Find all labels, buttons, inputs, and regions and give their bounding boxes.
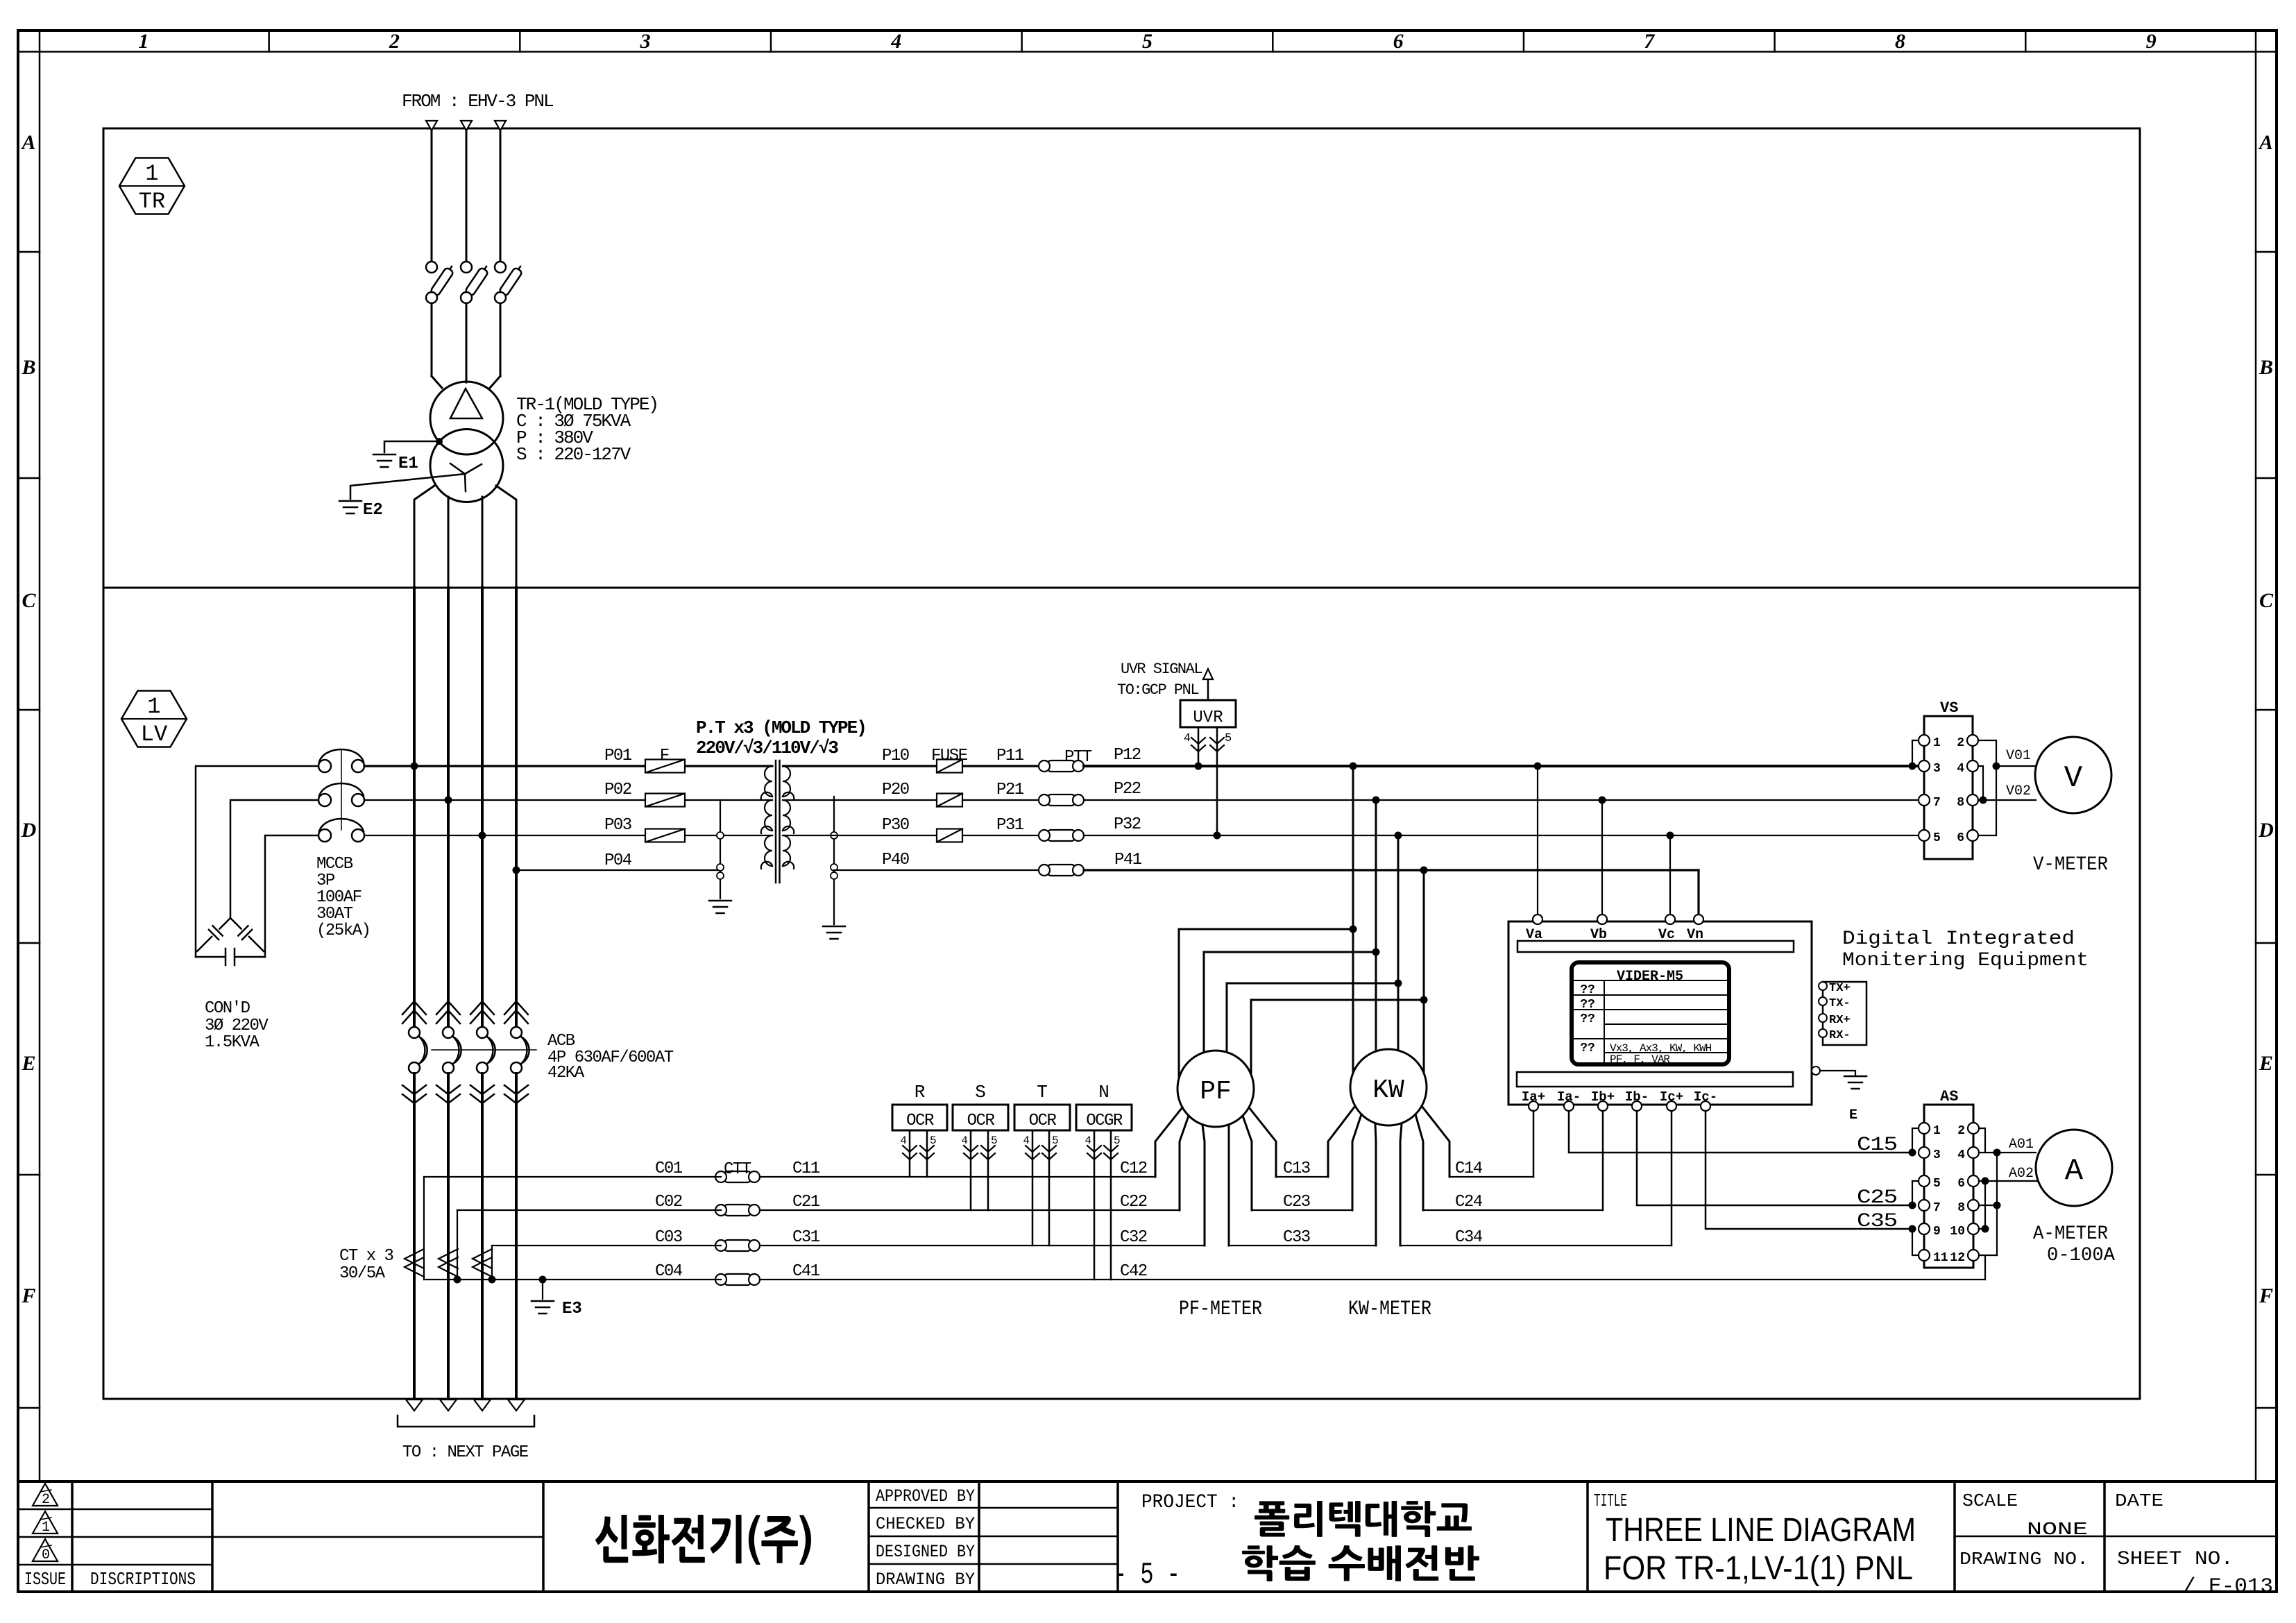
svg-text:P.T x3 (MOLD TYPE): P.T x3 (MOLD TYPE) bbox=[696, 717, 866, 738]
svg-text:Ic+: Ic+ bbox=[1660, 1089, 1683, 1105]
svg-text:B: B bbox=[21, 356, 35, 379]
svg-text:7: 7 bbox=[1644, 30, 1655, 53]
svg-text:P04: P04 bbox=[604, 851, 632, 870]
svg-text:F: F bbox=[21, 1284, 35, 1307]
svg-text:C21: C21 bbox=[792, 1193, 820, 1212]
svg-text:C12: C12 bbox=[1120, 1159, 1147, 1178]
svg-text:8: 8 bbox=[1957, 1201, 1965, 1215]
svg-text:3: 3 bbox=[1933, 762, 1941, 776]
svg-text:3: 3 bbox=[1933, 1148, 1941, 1162]
svg-text:A: A bbox=[2065, 1154, 2084, 1189]
svg-text:1.5KVA: 1.5KVA bbox=[205, 1033, 260, 1052]
svg-text:C31: C31 bbox=[792, 1228, 820, 1247]
svg-text:30/5A: 30/5A bbox=[339, 1264, 386, 1283]
svg-text:C02: C02 bbox=[655, 1193, 682, 1212]
svg-text:E2: E2 bbox=[363, 501, 383, 520]
svg-text:V-METER: V-METER bbox=[2033, 854, 2108, 876]
svg-text:DISCRIPTIONS: DISCRIPTIONS bbox=[90, 1569, 196, 1590]
svg-text:P31: P31 bbox=[996, 816, 1024, 835]
svg-text:Digital Integrated: Digital Integrated bbox=[1842, 928, 2075, 950]
svg-text:TX-: TX- bbox=[1829, 997, 1851, 1010]
svg-text:3: 3 bbox=[640, 30, 651, 53]
svg-text:P12: P12 bbox=[1114, 746, 1141, 765]
svg-text:TITLE: TITLE bbox=[1594, 1490, 1627, 1511]
svg-text:E: E bbox=[21, 1052, 35, 1075]
svg-text:PF: PF bbox=[1200, 1077, 1232, 1107]
svg-text:4: 4 bbox=[1085, 1135, 1091, 1147]
svg-text:PF, F, VAR: PF, F, VAR bbox=[1610, 1053, 1670, 1066]
svg-text:9: 9 bbox=[2146, 30, 2157, 53]
svg-text:D: D bbox=[2258, 819, 2274, 842]
svg-text:C15: C15 bbox=[1857, 1135, 1897, 1156]
svg-text:UVR SIGNAL: UVR SIGNAL bbox=[1121, 661, 1202, 678]
svg-text:11: 11 bbox=[1933, 1251, 1948, 1265]
svg-text:9: 9 bbox=[1933, 1225, 1941, 1239]
svg-text:4: 4 bbox=[961, 1135, 968, 1147]
svg-text:E1: E1 bbox=[398, 454, 418, 473]
svg-text:THREE LINE DIAGRAM: THREE LINE DIAGRAM bbox=[1606, 1512, 1916, 1549]
svg-text:RX+: RX+ bbox=[1829, 1014, 1851, 1027]
svg-text:4: 4 bbox=[1184, 732, 1191, 745]
svg-text:V01: V01 bbox=[2006, 748, 2031, 764]
svg-text:0-100A: 0-100A bbox=[2047, 1245, 2115, 1266]
svg-text:8: 8 bbox=[1957, 796, 1964, 810]
svg-text:C04: C04 bbox=[655, 1262, 683, 1281]
svg-text:6: 6 bbox=[1957, 1177, 1965, 1191]
svg-text:V: V bbox=[2064, 761, 2083, 796]
svg-text:RX-: RX- bbox=[1829, 1029, 1851, 1042]
svg-text:C13: C13 bbox=[1283, 1159, 1310, 1178]
svg-text:??: ?? bbox=[1580, 1012, 1595, 1026]
svg-text:CTT: CTT bbox=[724, 1160, 751, 1179]
svg-text:C14: C14 bbox=[1455, 1159, 1483, 1178]
svg-text:TR: TR bbox=[139, 189, 165, 214]
svg-text:1: 1 bbox=[1933, 736, 1941, 750]
svg-text:(25kA): (25kA) bbox=[316, 921, 370, 940]
svg-text:A01: A01 bbox=[2009, 1137, 2034, 1153]
svg-text:AS: AS bbox=[1940, 1088, 1958, 1105]
svg-text:C33: C33 bbox=[1283, 1228, 1310, 1247]
svg-text:OCR: OCR bbox=[967, 1112, 995, 1130]
svg-text:C22: C22 bbox=[1120, 1193, 1147, 1212]
svg-text:42KA: 42KA bbox=[547, 1064, 585, 1082]
svg-text:P41: P41 bbox=[1114, 851, 1142, 869]
svg-text:C24: C24 bbox=[1455, 1193, 1483, 1212]
svg-text:N: N bbox=[1098, 1082, 1109, 1103]
svg-text:VS: VS bbox=[1940, 699, 1958, 717]
svg-text:LV: LV bbox=[141, 722, 168, 747]
svg-text:Vc: Vc bbox=[1658, 927, 1675, 943]
svg-text:C11: C11 bbox=[792, 1159, 820, 1178]
svg-text:E: E bbox=[1849, 1107, 1857, 1123]
svg-text:5: 5 bbox=[1225, 732, 1232, 745]
svg-text:4: 4 bbox=[1023, 1135, 1030, 1147]
svg-text:DRAWING NO.: DRAWING NO. bbox=[1959, 1549, 2089, 1570]
svg-text:P10: P10 bbox=[882, 747, 909, 765]
svg-text:A: A bbox=[2258, 131, 2273, 154]
svg-text:30AT: 30AT bbox=[316, 905, 353, 924]
svg-text:5: 5 bbox=[930, 1135, 937, 1147]
svg-text:0: 0 bbox=[42, 1547, 50, 1563]
svg-text:1: 1 bbox=[138, 30, 148, 53]
svg-text:Vn: Vn bbox=[1687, 927, 1703, 943]
svg-text:SCALE: SCALE bbox=[1962, 1490, 2018, 1511]
svg-text:CT x 3: CT x 3 bbox=[339, 1247, 393, 1266]
svg-text:APPROVED BY: APPROVED BY bbox=[876, 1486, 975, 1506]
svg-text:Vb: Vb bbox=[1590, 927, 1607, 943]
svg-text:220V/√3/110V/√3: 220V/√3/110V/√3 bbox=[696, 738, 838, 758]
svg-text:OCGR: OCGR bbox=[1086, 1112, 1123, 1130]
svg-text:Ia-: Ia- bbox=[1557, 1089, 1581, 1105]
svg-text:3P: 3P bbox=[316, 872, 335, 890]
svg-text:4: 4 bbox=[900, 1135, 907, 1147]
svg-text:Monitering Equipment: Monitering Equipment bbox=[1842, 950, 2089, 971]
svg-text:SHEET NO.: SHEET NO. bbox=[2117, 1549, 2234, 1570]
svg-text:C03: C03 bbox=[655, 1228, 682, 1247]
svg-text:7: 7 bbox=[1933, 1201, 1941, 1215]
svg-text:ISSUE: ISSUE bbox=[24, 1569, 66, 1590]
svg-text:Ia+: Ia+ bbox=[1522, 1089, 1545, 1105]
svg-text:S : 220-127V: S : 220-127V bbox=[516, 444, 631, 465]
svg-text:4: 4 bbox=[1957, 1148, 1965, 1162]
svg-text:A-METER: A-METER bbox=[2033, 1223, 2108, 1245]
svg-text:F: F bbox=[660, 747, 670, 765]
svg-text:4: 4 bbox=[1957, 762, 1964, 776]
svg-text:5: 5 bbox=[1114, 1135, 1121, 1147]
svg-text:C25: C25 bbox=[1857, 1187, 1897, 1209]
svg-text:C01: C01 bbox=[655, 1159, 683, 1178]
svg-text:2: 2 bbox=[1957, 736, 1964, 750]
svg-text:Ic-: Ic- bbox=[1694, 1089, 1717, 1105]
svg-text:MCCB: MCCB bbox=[316, 855, 353, 874]
svg-text:2: 2 bbox=[42, 1492, 50, 1508]
svg-text:TX+: TX+ bbox=[1829, 982, 1851, 995]
svg-text:D: D bbox=[21, 819, 37, 842]
svg-text:??: ?? bbox=[1580, 983, 1595, 997]
svg-text:VIDER-M5: VIDER-M5 bbox=[1617, 969, 1683, 985]
svg-text:OCR: OCR bbox=[1029, 1112, 1057, 1130]
svg-text:DATE: DATE bbox=[2115, 1490, 2163, 1511]
svg-text:12: 12 bbox=[1950, 1251, 1965, 1265]
svg-text:Ib+: Ib+ bbox=[1591, 1089, 1615, 1105]
svg-text:ACB: ACB bbox=[547, 1032, 575, 1051]
svg-text:5: 5 bbox=[1052, 1135, 1059, 1147]
svg-text:C23: C23 bbox=[1283, 1193, 1310, 1212]
svg-text:S: S bbox=[975, 1082, 986, 1103]
svg-text:E3: E3 bbox=[562, 1300, 582, 1318]
svg-text:C41: C41 bbox=[792, 1262, 820, 1281]
svg-text:NONE: NONE bbox=[2027, 1519, 2088, 1540]
svg-text:DESIGNED BY: DESIGNED BY bbox=[876, 1542, 975, 1562]
svg-text:P32: P32 bbox=[1114, 815, 1141, 834]
svg-text:TO:GCP PNL: TO:GCP PNL bbox=[1117, 681, 1198, 699]
svg-text:P22: P22 bbox=[1114, 780, 1141, 799]
svg-text:??: ?? bbox=[1580, 1042, 1595, 1055]
svg-text:5: 5 bbox=[1933, 1177, 1941, 1191]
svg-text:10: 10 bbox=[1950, 1225, 1965, 1239]
svg-text:2: 2 bbox=[389, 30, 400, 53]
svg-text:B: B bbox=[2259, 356, 2273, 379]
svg-text:P03: P03 bbox=[604, 816, 631, 835]
svg-text:E: E bbox=[2259, 1052, 2273, 1075]
svg-text:??: ?? bbox=[1580, 998, 1595, 1012]
svg-text:P02: P02 bbox=[604, 781, 631, 799]
svg-text:OCR: OCR bbox=[906, 1112, 934, 1130]
svg-text:- 5 -: - 5 - bbox=[1114, 1558, 1180, 1592]
svg-text:P20: P20 bbox=[882, 781, 909, 799]
svg-text:P21: P21 bbox=[996, 781, 1024, 799]
svg-text:1: 1 bbox=[42, 1520, 50, 1536]
svg-text:F: F bbox=[2259, 1284, 2273, 1307]
svg-text:2: 2 bbox=[1957, 1124, 1965, 1138]
svg-text:100AF: 100AF bbox=[316, 888, 362, 907]
svg-text:C: C bbox=[2259, 589, 2274, 612]
svg-text:TO : NEXT PAGE: TO : NEXT PAGE bbox=[402, 1443, 529, 1462]
svg-text:FROM : EHV-3 PNL: FROM : EHV-3 PNL bbox=[402, 91, 553, 112]
svg-text:P11: P11 bbox=[996, 747, 1024, 765]
svg-text:6: 6 bbox=[1957, 831, 1964, 845]
svg-text:P40: P40 bbox=[882, 851, 909, 869]
svg-text:/ E-013: / E-013 bbox=[2183, 1575, 2273, 1599]
svg-text:C42: C42 bbox=[1120, 1262, 1147, 1281]
svg-text:7: 7 bbox=[1933, 796, 1941, 810]
svg-text:FUSE: FUSE bbox=[931, 747, 968, 765]
svg-text:KW-METER: KW-METER bbox=[1348, 1298, 1431, 1321]
svg-text:T: T bbox=[1037, 1082, 1048, 1103]
svg-text:Ib-: Ib- bbox=[1625, 1089, 1649, 1105]
svg-text:P01: P01 bbox=[604, 747, 632, 765]
svg-text:UVR: UVR bbox=[1193, 708, 1223, 727]
svg-text:CON'D: CON'D bbox=[205, 999, 250, 1018]
svg-text:5: 5 bbox=[1933, 831, 1941, 845]
svg-text:C35: C35 bbox=[1857, 1211, 1897, 1232]
svg-text:4: 4 bbox=[890, 30, 901, 53]
svg-text:8: 8 bbox=[1895, 30, 1905, 53]
svg-text:C32: C32 bbox=[1120, 1228, 1147, 1247]
svg-text:KW: KW bbox=[1372, 1076, 1404, 1105]
svg-text:5: 5 bbox=[1142, 30, 1153, 53]
svg-text:C34: C34 bbox=[1455, 1228, 1483, 1247]
svg-text:PROJECT :: PROJECT : bbox=[1141, 1492, 1239, 1513]
svg-text:P30: P30 bbox=[882, 816, 909, 835]
svg-text:CHECKED BY: CHECKED BY bbox=[876, 1514, 975, 1534]
svg-text:1: 1 bbox=[147, 694, 160, 720]
svg-text:A: A bbox=[20, 131, 35, 154]
svg-text:PF-METER: PF-METER bbox=[1179, 1298, 1262, 1321]
svg-text:R: R bbox=[915, 1082, 926, 1103]
svg-text:1: 1 bbox=[145, 161, 158, 187]
svg-text:3Ø 220V: 3Ø 220V bbox=[205, 1017, 269, 1035]
svg-text:6: 6 bbox=[1393, 30, 1404, 53]
svg-text:V02: V02 bbox=[2006, 783, 2031, 799]
svg-text:A02: A02 bbox=[2009, 1166, 2034, 1182]
svg-text:DRAWING BY: DRAWING BY bbox=[876, 1570, 975, 1590]
svg-text:C: C bbox=[22, 589, 36, 612]
svg-text:FOR TR-1,LV-1(1) PNL: FOR TR-1,LV-1(1) PNL bbox=[1604, 1550, 1913, 1587]
svg-text:1: 1 bbox=[1933, 1124, 1941, 1138]
svg-text:5: 5 bbox=[991, 1135, 998, 1147]
svg-text:Va: Va bbox=[1526, 927, 1542, 943]
